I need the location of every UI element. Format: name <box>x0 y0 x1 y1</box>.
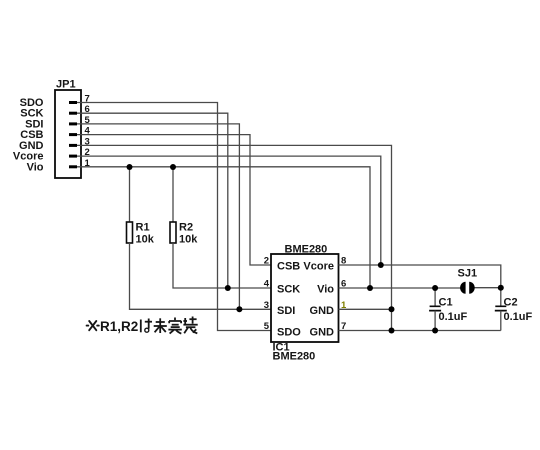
svg-text:C2: C2 <box>504 297 518 309</box>
svg-text:SCK: SCK <box>277 284 300 296</box>
svg-text:5: 5 <box>264 321 270 332</box>
svg-text:Vcore: Vcore <box>303 261 334 273</box>
svg-text:1: 1 <box>85 158 91 169</box>
svg-text:Vio: Vio <box>27 161 44 173</box>
svg-text:0.1uF: 0.1uF <box>504 311 533 323</box>
junction node C1 top <box>432 285 438 291</box>
capacitor C1 plates <box>429 306 441 310</box>
capacitor C1 top lead <box>434 288 436 306</box>
wire SJ1 right pad to Vcore node <box>474 287 501 289</box>
svg-text:GND: GND <box>310 326 335 338</box>
junction node Vcore <box>378 262 384 268</box>
svg-text:SJ1: SJ1 <box>458 268 478 280</box>
svg-text:10k: 10k <box>179 234 198 246</box>
wire net Vcore: JP1 pin2 right then down <box>77 156 381 265</box>
wire R1 top lead from Vio net <box>129 167 131 222</box>
wire net SCK: JP1 pin6 down to SCK row <box>77 113 228 288</box>
wire R2 top lead from Vio net <box>172 167 174 222</box>
svg-text:R1,R2: R1,R2 <box>100 319 138 334</box>
wire net SDO: JP1 pin7 to IC1 pin5 <box>77 103 271 331</box>
junction node R2/Vio <box>170 164 176 170</box>
junction node Vio <box>367 285 373 291</box>
resistor R2 body <box>170 222 176 243</box>
junction node SJ1/C2 <box>498 285 504 291</box>
svg-text:2: 2 <box>85 147 90 158</box>
wire net SDI: JP1 pin5 down to SDI row <box>77 124 239 309</box>
wire R2 bottom lead to SCK row into IC1 pin4 <box>173 243 271 288</box>
svg-text:R2: R2 <box>179 222 193 234</box>
svg-text:6: 6 <box>85 104 90 115</box>
svg-text:7: 7 <box>85 94 90 105</box>
note glyph kanji sou (mount) <box>183 317 197 334</box>
svg-text:0.1uF: 0.1uF <box>439 311 468 323</box>
connector JP1 body <box>55 90 81 178</box>
resistor R1 body <box>127 222 133 243</box>
svg-text:3: 3 <box>85 136 90 147</box>
svg-text:8: 8 <box>341 256 346 267</box>
note glyph kanji mi (not yet) <box>154 318 167 333</box>
svg-text:BME280: BME280 <box>285 244 328 256</box>
svg-text:R1: R1 <box>136 222 150 234</box>
svg-text:SDI: SDI <box>277 305 295 317</box>
solder jumper SJ1 <box>460 282 475 294</box>
capacitor C2 plates <box>495 306 507 310</box>
junction node GND rail <box>389 328 395 334</box>
svg-text:CSB: CSB <box>277 261 300 273</box>
JP1 pin 2 pad <box>69 155 77 158</box>
wire net GND: JP1 pin3 right then down to ground rail <box>77 145 392 330</box>
capacitor C1 bottom lead <box>434 311 436 331</box>
wire R1 bottom lead to SDI row into IC1 pin3 <box>130 243 272 309</box>
note glyph kanji jitsu (implementation) <box>168 318 181 334</box>
junction node R1/Vio <box>127 164 133 170</box>
capacitor C2 bottom lead <box>500 311 502 331</box>
svg-text:6: 6 <box>341 279 346 290</box>
wire GND row: IC1 pin1 to GND bus <box>339 308 392 310</box>
svg-text:2: 2 <box>264 256 269 267</box>
JP1 pin 3 pad <box>69 144 77 147</box>
svg-text:GND: GND <box>310 305 335 317</box>
capacitor C2 top lead <box>500 288 502 307</box>
junction node SDI <box>236 306 242 312</box>
JP1 pin 6 pad <box>69 112 77 115</box>
wire net Vio: JP1 pin1 right then down <box>77 167 370 288</box>
svg-text:C1: C1 <box>439 297 453 309</box>
svg-text:1: 1 <box>341 300 347 311</box>
JP1 pin 1 pad <box>69 165 77 168</box>
JP1 pin 4 pad <box>69 133 77 136</box>
note glyph kome mark <box>87 321 99 330</box>
junction node GND pin1 <box>389 306 395 312</box>
wire Vio row: IC1 pin6 to SJ1 left pad <box>339 287 462 289</box>
JP1 pin 5 pad <box>69 122 77 125</box>
svg-text:7: 7 <box>341 321 346 332</box>
svg-text:Vio: Vio <box>317 284 334 296</box>
note glyph hiragana ha <box>141 319 152 333</box>
junction node SCK <box>225 285 231 291</box>
svg-text:5: 5 <box>85 115 91 126</box>
wire ground rail: IC1 pin7 right to C2 <box>339 330 501 332</box>
svg-text:4: 4 <box>264 279 270 290</box>
svg-text:10k: 10k <box>136 234 155 246</box>
svg-text:BME280: BME280 <box>273 351 316 363</box>
wire net CSB: JP1 pin4 to IC1 pin2 <box>77 135 271 265</box>
svg-text:4: 4 <box>85 126 91 137</box>
wire Vcore row: IC1 pin8 right then down to SJ1 right node <box>339 265 501 288</box>
JP1 pin 7 pad <box>69 101 77 104</box>
op-amp IC1 BME280 body <box>271 254 339 342</box>
svg-text:3: 3 <box>264 300 269 311</box>
junction node C1 bottom <box>432 328 438 334</box>
svg-text:JP1: JP1 <box>56 79 76 91</box>
svg-text:SDO: SDO <box>277 326 301 338</box>
